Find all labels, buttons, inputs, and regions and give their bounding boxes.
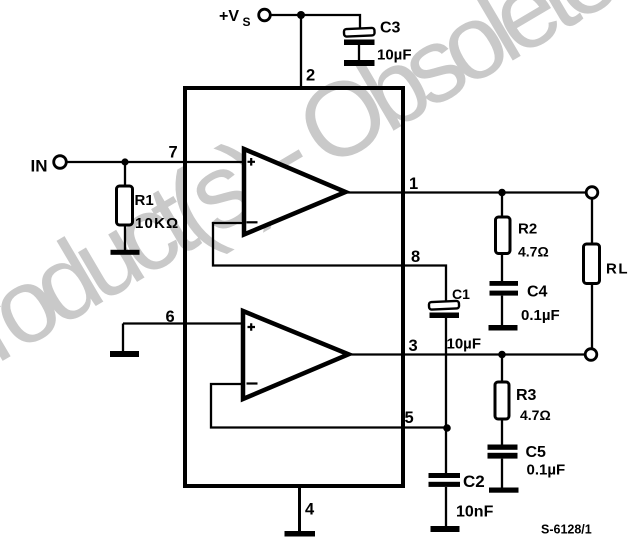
svg-text:4.7Ω: 4.7Ω xyxy=(518,244,549,260)
svg-text:5: 5 xyxy=(405,409,414,427)
svg-text:10nF: 10nF xyxy=(456,504,494,521)
svg-text:C1: C1 xyxy=(452,286,470,302)
svg-text:1: 1 xyxy=(409,175,418,193)
svg-text:RL: RL xyxy=(606,261,629,278)
svg-text:0.1µF: 0.1µF xyxy=(527,462,566,479)
svg-text:10µF: 10µF xyxy=(377,47,412,64)
svg-text:C2: C2 xyxy=(463,472,485,491)
svg-text:6: 6 xyxy=(166,308,175,326)
svg-text:10KΩ: 10KΩ xyxy=(135,215,179,232)
svg-text:0.1µF: 0.1µF xyxy=(521,307,560,324)
svg-text:R3: R3 xyxy=(516,387,537,404)
svg-text:C5: C5 xyxy=(526,444,547,461)
svg-text:IN: IN xyxy=(31,157,48,176)
svg-text:4.7Ω: 4.7Ω xyxy=(520,407,551,423)
svg-text:3: 3 xyxy=(409,337,418,355)
svg-text:7: 7 xyxy=(169,144,178,162)
svg-text:R2: R2 xyxy=(518,221,537,238)
svg-text:S: S xyxy=(243,15,251,29)
svg-text:C3: C3 xyxy=(380,20,401,37)
svg-text:8: 8 xyxy=(411,248,420,266)
svg-text:S-6128/1: S-6128/1 xyxy=(541,523,592,537)
svg-text:4: 4 xyxy=(305,501,315,519)
svg-text:10µF: 10µF xyxy=(447,336,482,353)
svg-text:R1: R1 xyxy=(135,192,154,209)
svg-text:2: 2 xyxy=(306,67,315,85)
svg-text:+V: +V xyxy=(219,8,239,25)
svg-text:C4: C4 xyxy=(527,284,548,301)
